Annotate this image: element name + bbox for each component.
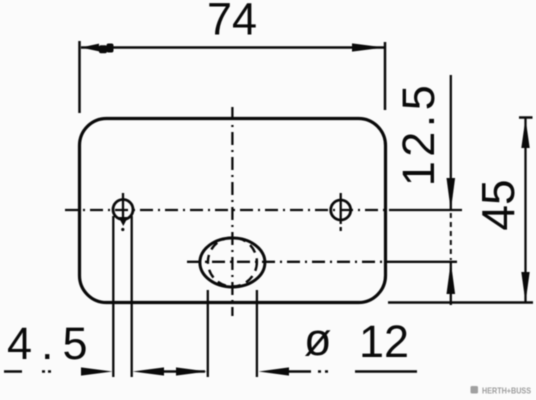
svg-text:ø: ø (304, 314, 332, 365)
svg-text:45: 45 (472, 179, 524, 230)
svg-text:HERTH+BUSS: HERTH+BUSS (482, 386, 531, 396)
svg-text:12: 12 (359, 316, 409, 367)
svg-text:4.5: 4.5 (7, 318, 97, 369)
svg-text:74: 74 (207, 0, 257, 45)
svg-text:12.5: 12.5 (393, 81, 444, 187)
